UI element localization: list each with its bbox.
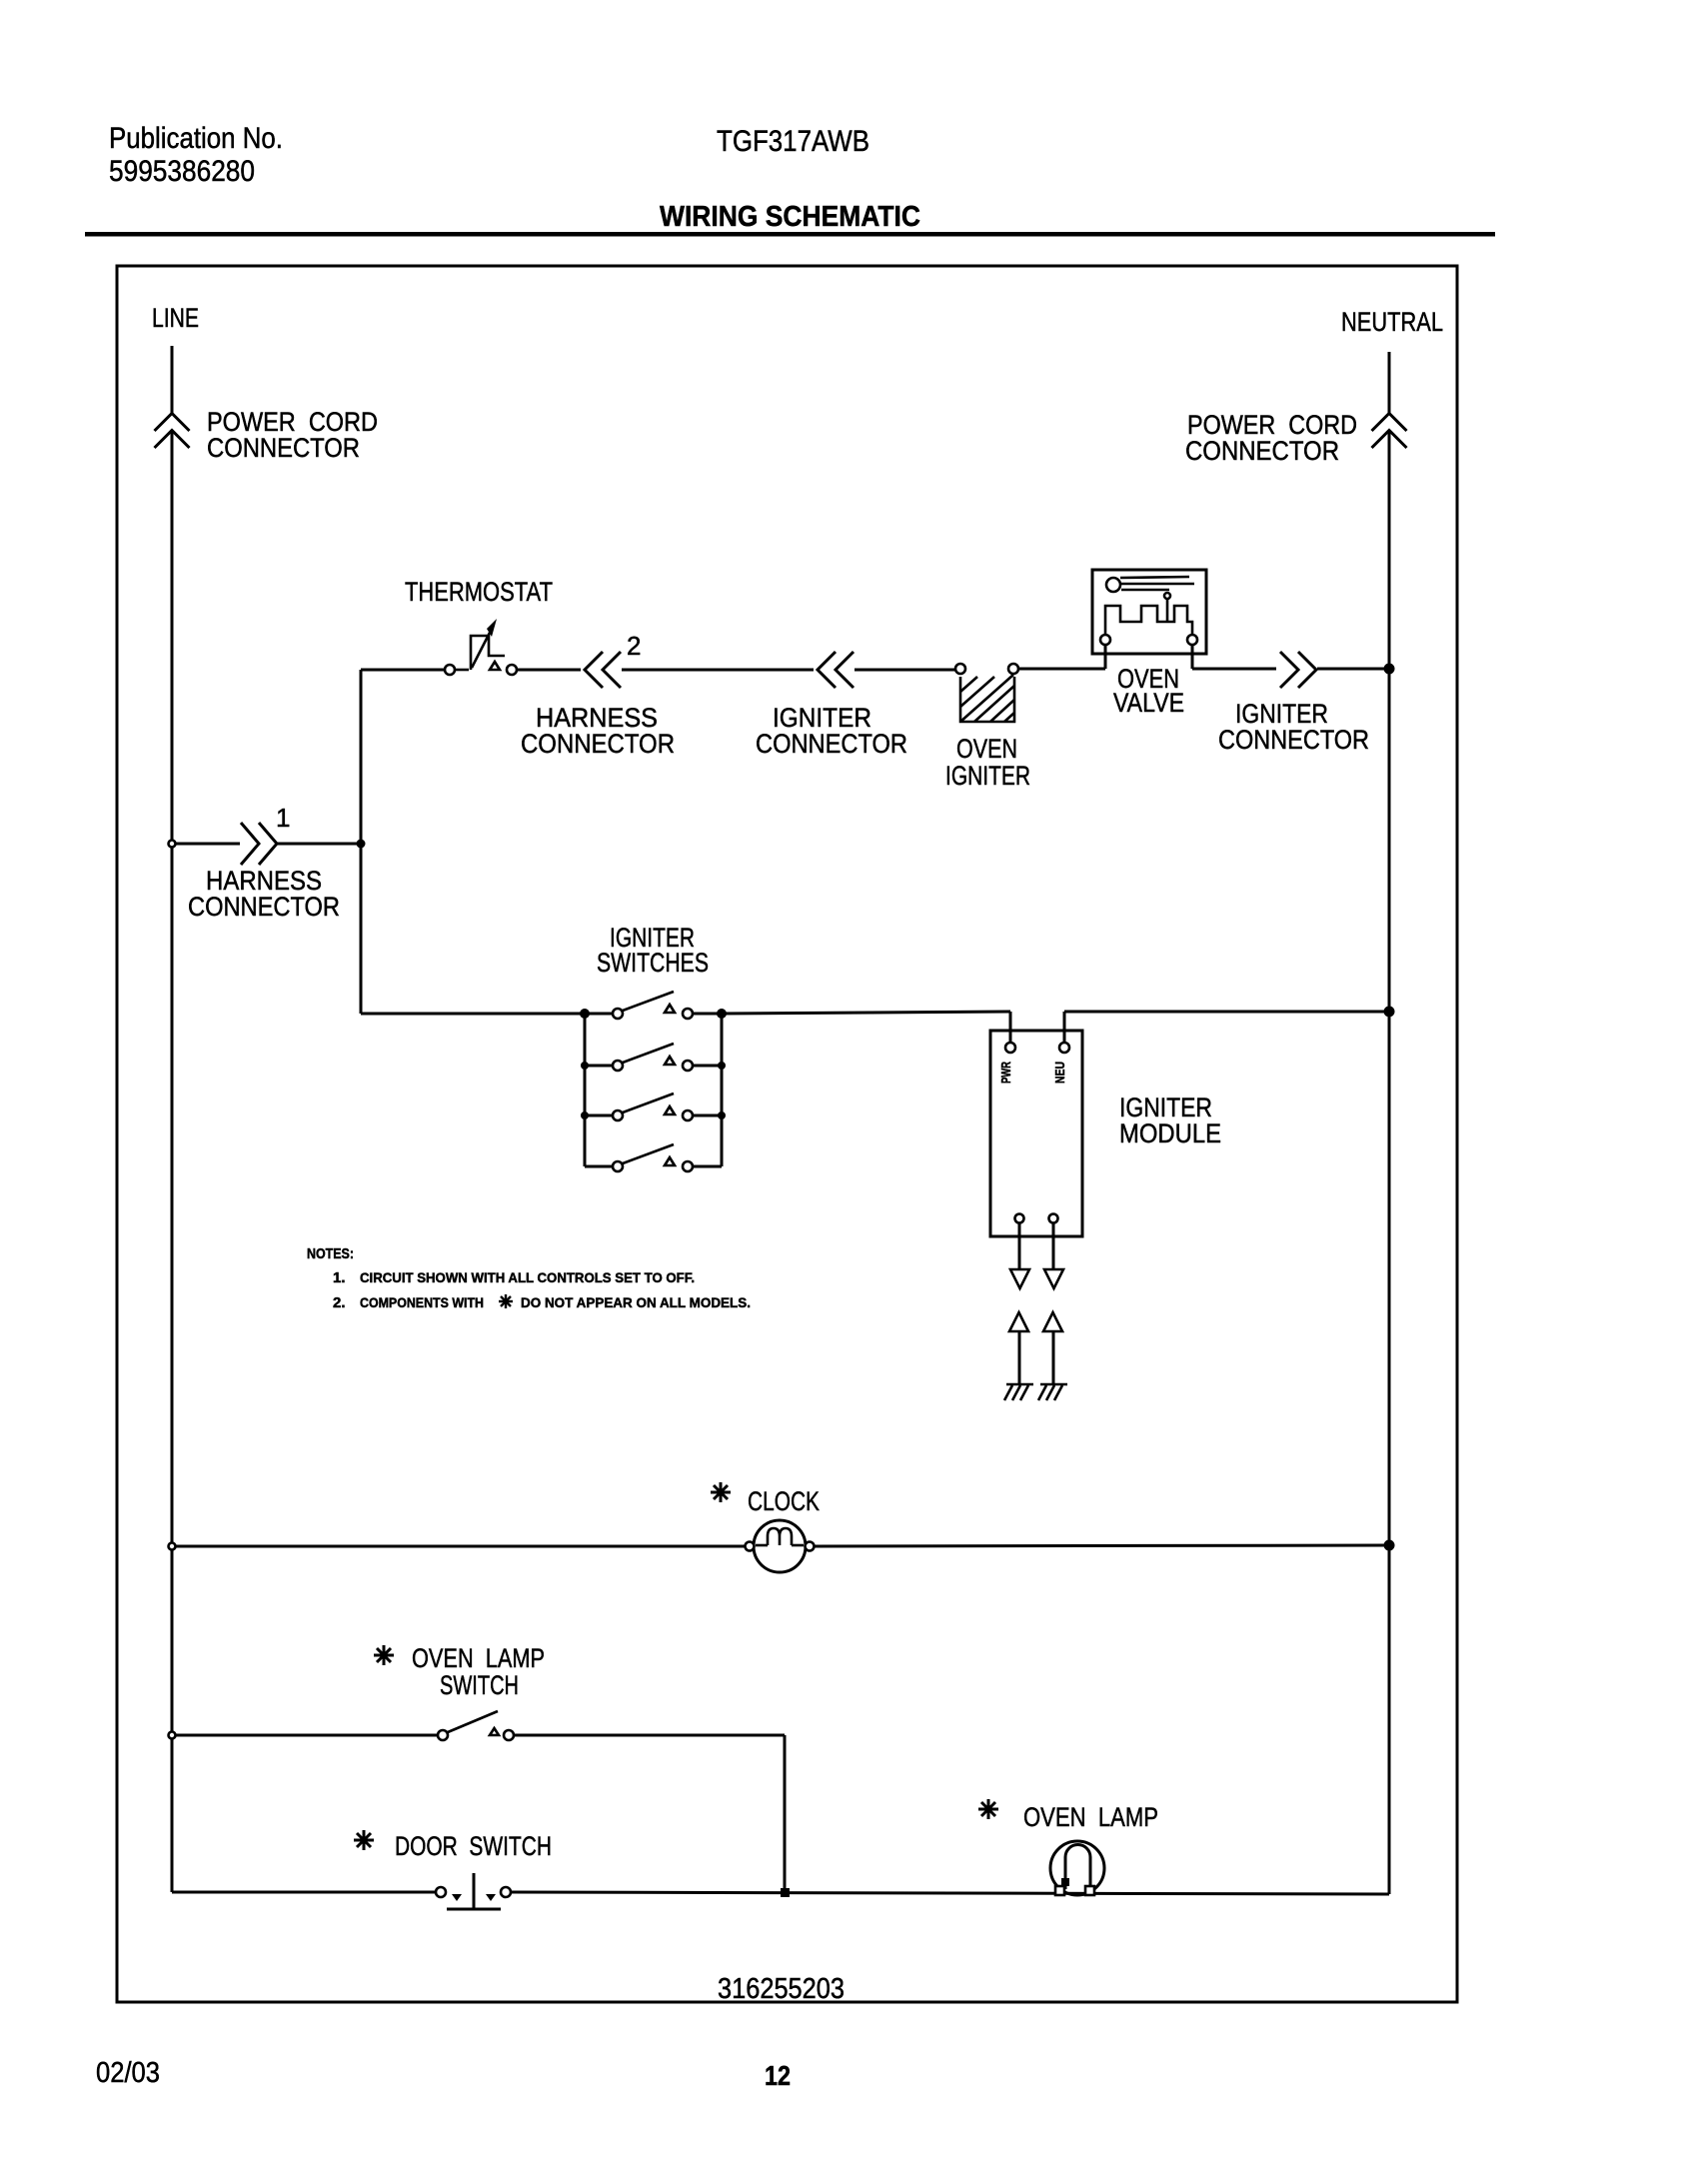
svg-text:NEUTRAL: NEUTRAL [1341,307,1443,337]
svg-text:2: 2 [627,631,641,661]
svg-text:CIRCUIT SHOWN WITH ALL CONTROL: CIRCUIT SHOWN WITH ALL CONTROLS SET TO O… [360,1269,695,1285]
svg-text:IGNITER: IGNITER [945,761,1030,791]
svg-text:MODULE: MODULE [1119,1118,1221,1148]
svg-text:COMPONENTS WITH: COMPONENTS WITH [360,1294,484,1310]
svg-text:CONNECTOR: CONNECTOR [521,729,675,759]
svg-text:CONNECTOR: CONNECTOR [188,892,340,922]
svg-text:NOTES:: NOTES: [307,1245,354,1262]
svg-text:VALVE: VALVE [1113,688,1184,718]
svg-text:5995386280: 5995386280 [109,155,255,188]
svg-text:CONNECTOR: CONNECTOR [756,729,907,759]
svg-text:DO NOT APPEAR ON ALL MODELS.: DO NOT APPEAR ON ALL MODELS. [521,1294,751,1310]
svg-text:TGF317AWB: TGF317AWB [717,125,869,158]
svg-text:NEU: NEU [1052,1062,1067,1084]
svg-text:CONNECTOR: CONNECTOR [1218,725,1369,755]
svg-text:CONNECTOR: CONNECTOR [1185,436,1339,466]
svg-text:OVEN LAMP: OVEN LAMP [412,1643,545,1673]
svg-text:1.: 1. [333,1269,346,1286]
svg-text:LINE: LINE [152,303,199,333]
svg-text:OVEN: OVEN [956,734,1017,764]
svg-text:SWITCHES: SWITCHES [597,948,709,978]
svg-text:OVEN LAMP: OVEN LAMP [1023,1802,1158,1832]
svg-text:2.: 2. [333,1294,346,1311]
svg-text:WIRING SCHEMATIC: WIRING SCHEMATIC [660,201,920,233]
svg-text:PWR: PWR [998,1062,1013,1084]
svg-text:1: 1 [276,803,290,833]
svg-text:CLOCK: CLOCK [748,1486,820,1516]
svg-text:12: 12 [765,2060,791,2091]
svg-text:THERMOSTAT: THERMOSTAT [405,577,553,607]
svg-text:02/03: 02/03 [96,2057,160,2089]
svg-text:CONNECTOR: CONNECTOR [207,433,360,463]
svg-text:Publication No.: Publication No. [109,122,283,155]
svg-text:SWITCH: SWITCH [440,1670,519,1700]
svg-text:DOOR SWITCH: DOOR SWITCH [395,1831,552,1861]
svg-text:316255203: 316255203 [718,1973,845,2005]
